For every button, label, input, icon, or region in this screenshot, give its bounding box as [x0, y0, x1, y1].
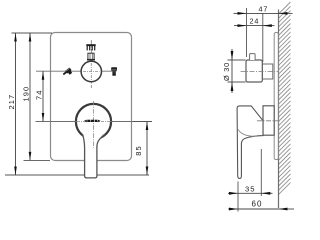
diverter crosshair — [83, 70, 100, 72]
svg-text:60: 60 — [252, 200, 263, 209]
centerline vertical through diverter — [90, 40, 92, 88]
knob top tab (side) — [250, 54, 256, 60]
centerline horizontal through screws / 74 ext top — [36, 70, 117, 72]
svg-text:24: 24 — [250, 16, 260, 25]
dim 74 — [35, 71, 45, 121]
svg-text:217: 217 — [7, 94, 16, 110]
svg-text:35: 35 — [245, 184, 255, 193]
svg-text:85: 85 — [134, 145, 143, 156]
diverter knurled head — [86, 44, 95, 50]
lever escutcheon circle — [76, 104, 111, 139]
svg-text:47: 47 — [259, 4, 269, 13]
handle lever (side) — [237, 106, 263, 178]
svg-text:Ø 30: Ø 30 — [222, 62, 231, 81]
knob neck (side) — [262, 64, 273, 79]
centerline horizontal through lever circle — [36, 121, 78, 123]
BRAVAT brand label — [84, 120, 101, 123]
diverter stem — [87, 53, 95, 60]
wall face line — [278, 10, 280, 209]
dim 190 — [22, 33, 32, 160]
dim 85 (right of front view) — [133, 122, 152, 176]
knob centerline (side) — [241, 70, 279, 72]
dim 47 — [234, 4, 293, 14]
centerline vertical through lever — [93, 101, 95, 148]
svg-text:74: 74 — [35, 89, 44, 100]
lever handle (front, keyhole shape) — [83, 130, 104, 139]
knob body (side) — [246, 60, 262, 82]
svg-text:190: 190 — [22, 86, 31, 102]
dim 217 — [7, 33, 17, 175]
dim Ø30 — [222, 49, 246, 93]
handle boss (side) — [263, 106, 274, 135]
diverter circle — [81, 61, 101, 81]
ext line plate bottom (left short) — [24, 159, 51, 161]
ext line boss front (x=261.3) — [260, 149, 262, 196]
dim 60 — [228, 200, 294, 211]
dim 35 — [228, 184, 273, 194]
plate (side, edge-on) — [274, 33, 278, 160]
wall hatch — [279, 2, 291, 195]
ext line knob front (x=246.5) — [246, 8, 248, 57]
dim 24 — [234, 16, 275, 27]
ext line lever tip (x=238) — [237, 182, 239, 212]
right screw — [111, 67, 117, 75]
ext line knob back (x=262.8) — [262, 13, 264, 62]
trim plate (front) — [51, 33, 132, 161]
ext line bottom (lever bottom, y=175) — [5, 174, 85, 176]
lever blade contour line (side) — [238, 130, 257, 137]
boss centerline (side) — [257, 120, 278, 122]
left screw (angled) — [62, 67, 73, 77]
ext line top (plate top) — [12, 32, 53, 34]
